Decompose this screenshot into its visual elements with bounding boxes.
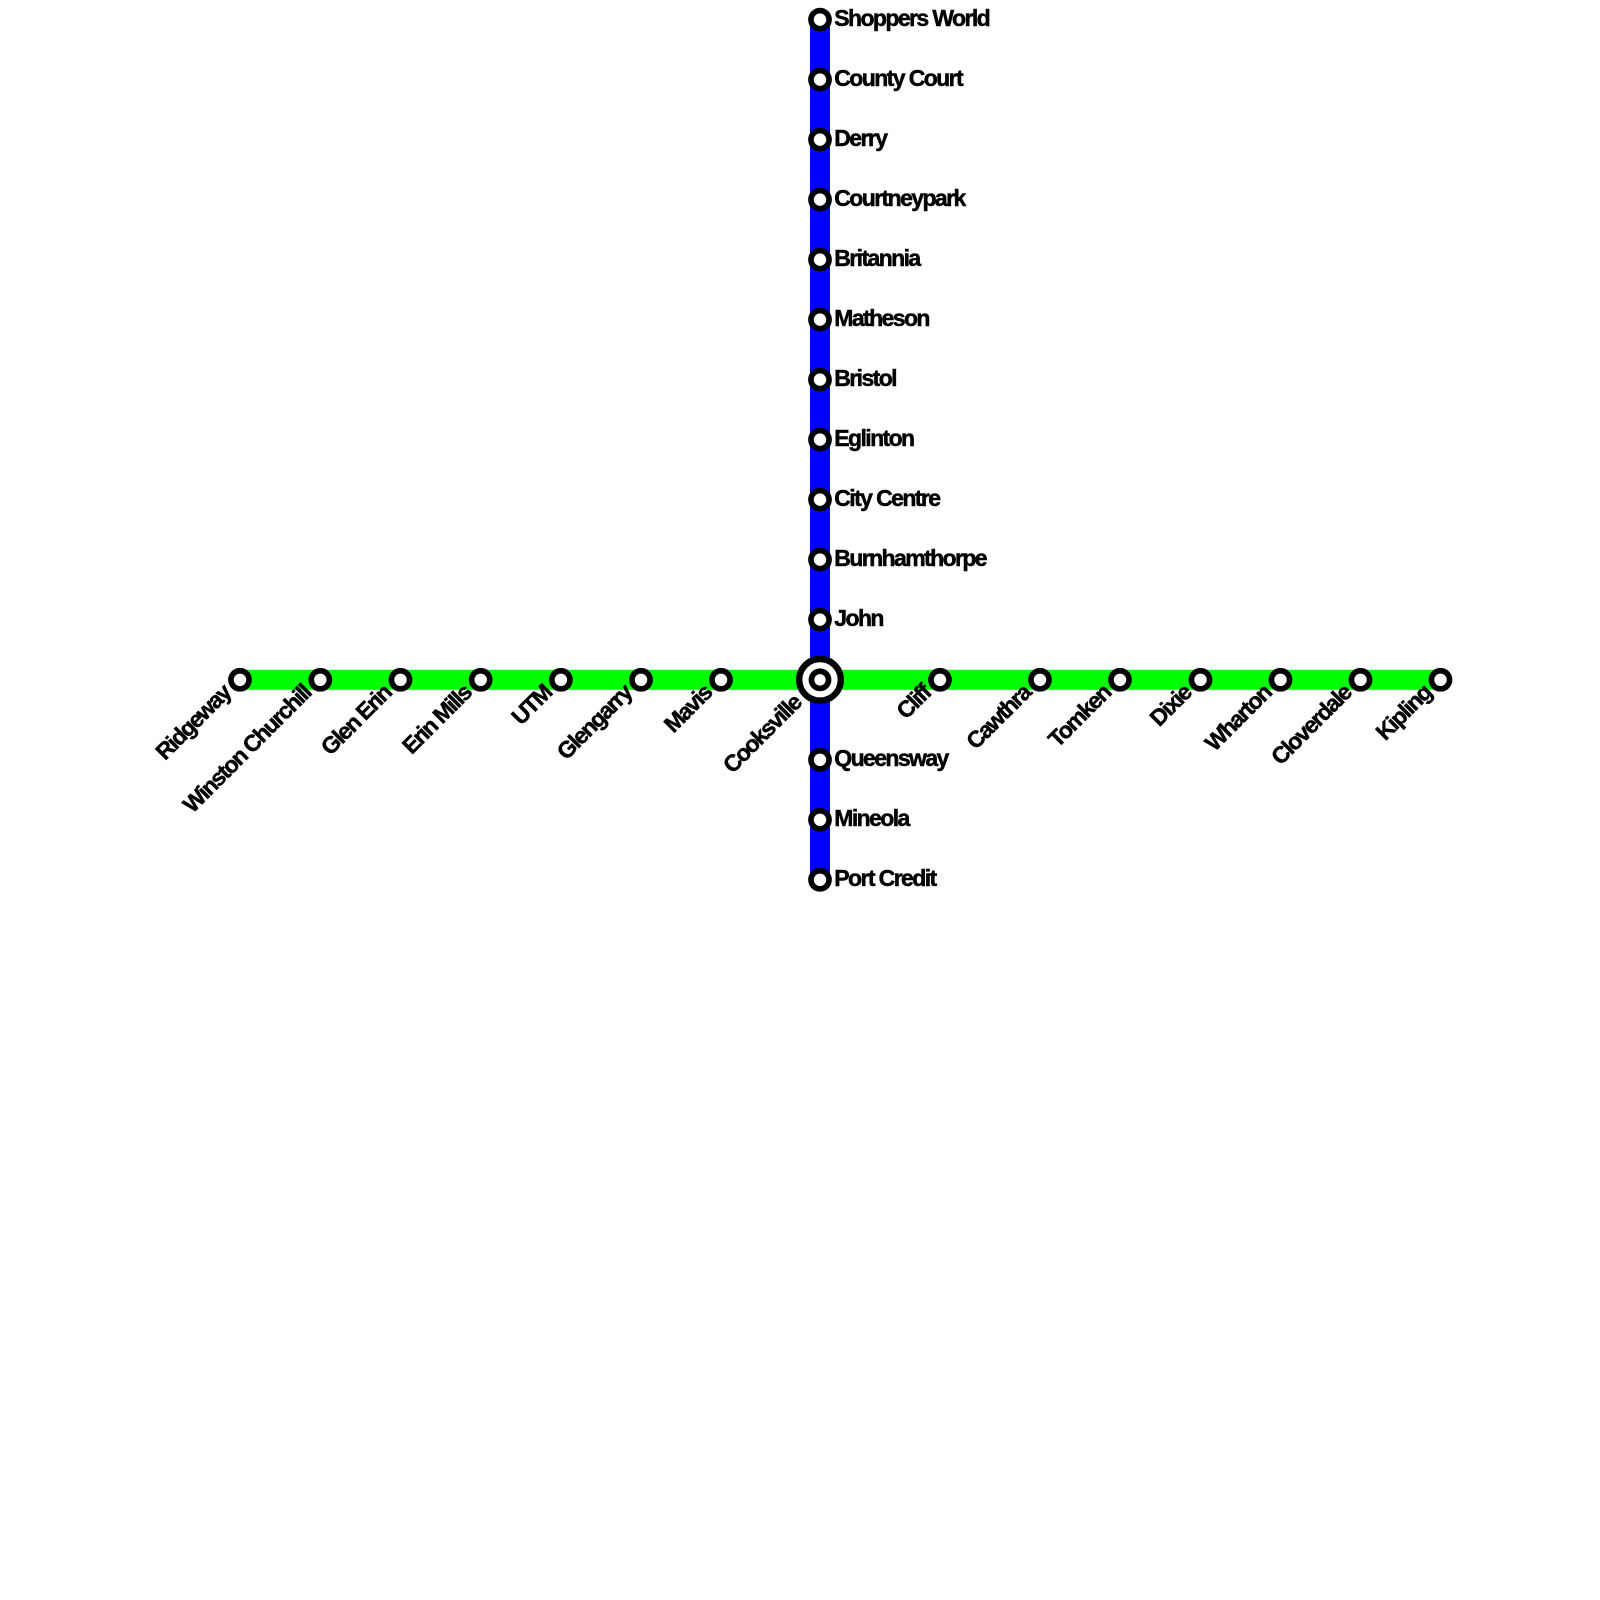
svg-text:Port Credit: Port Credit bbox=[834, 865, 937, 891]
station Glen Erin bbox=[391, 671, 409, 689]
station Port Credit bbox=[811, 871, 829, 889]
green line (horizontal route) bbox=[240, 670, 1441, 690]
station John bbox=[811, 611, 829, 629]
station Dixie bbox=[1191, 671, 1209, 689]
station Kipling bbox=[1431, 671, 1449, 689]
svg-text:Cloverdale: Cloverdale bbox=[1266, 679, 1357, 770]
svg-text:Britannia: Britannia bbox=[834, 245, 921, 271]
station Cawthra bbox=[1031, 671, 1049, 689]
svg-text:Shoppers World: Shoppers World bbox=[834, 5, 989, 31]
blue line (vertical route) bbox=[810, 20, 830, 880]
svg-text:City Centre: City Centre bbox=[834, 485, 940, 511]
interchange station Cooksville bbox=[799, 659, 841, 701]
station Erin Mills bbox=[472, 671, 490, 689]
svg-text:Erin Mills: Erin Mills bbox=[397, 679, 477, 759]
svg-text:Wharton: Wharton bbox=[1200, 679, 1277, 756]
station Queensway bbox=[811, 751, 829, 769]
svg-text:Queensway: Queensway bbox=[834, 745, 949, 771]
station Eglinton bbox=[811, 431, 829, 449]
svg-text:Derry: Derry bbox=[834, 125, 888, 151]
svg-text:Mineola: Mineola bbox=[834, 805, 910, 831]
station Tomken bbox=[1111, 671, 1129, 689]
svg-text:John: John bbox=[834, 605, 883, 631]
station Winston Churchill bbox=[311, 671, 329, 689]
svg-text:Cooksville: Cooksville bbox=[718, 689, 807, 778]
station Britannia bbox=[811, 251, 829, 269]
svg-text:Glen Erin: Glen Erin bbox=[316, 679, 397, 760]
station Mavis bbox=[712, 671, 730, 689]
station Cliff bbox=[931, 671, 949, 689]
station Burnhamthorpe bbox=[811, 551, 829, 569]
station Matheson bbox=[811, 311, 829, 329]
station Ridgeway bbox=[231, 671, 249, 689]
station Glengarry bbox=[632, 671, 650, 689]
station City Centre bbox=[811, 491, 829, 509]
svg-text:Tomken: Tomken bbox=[1043, 679, 1116, 752]
station Derry bbox=[811, 131, 829, 149]
svg-text:Burnhamthorpe: Burnhamthorpe bbox=[834, 545, 987, 571]
station Shoppers World bbox=[811, 11, 829, 29]
svg-text:Matheson: Matheson bbox=[834, 305, 929, 331]
station Wharton bbox=[1271, 671, 1289, 689]
station Courtneypark bbox=[811, 191, 829, 209]
svg-text:Bristol: Bristol bbox=[834, 365, 896, 391]
svg-text:County Court: County Court bbox=[834, 65, 964, 91]
station County Court bbox=[811, 71, 829, 89]
station UTM bbox=[552, 671, 570, 689]
svg-text:Courtneypark: Courtneypark bbox=[834, 185, 966, 211]
station Mineola bbox=[811, 811, 829, 829]
station Bristol bbox=[811, 371, 829, 389]
svg-text:Eglinton: Eglinton bbox=[834, 425, 914, 451]
station Cloverdale bbox=[1351, 671, 1369, 689]
